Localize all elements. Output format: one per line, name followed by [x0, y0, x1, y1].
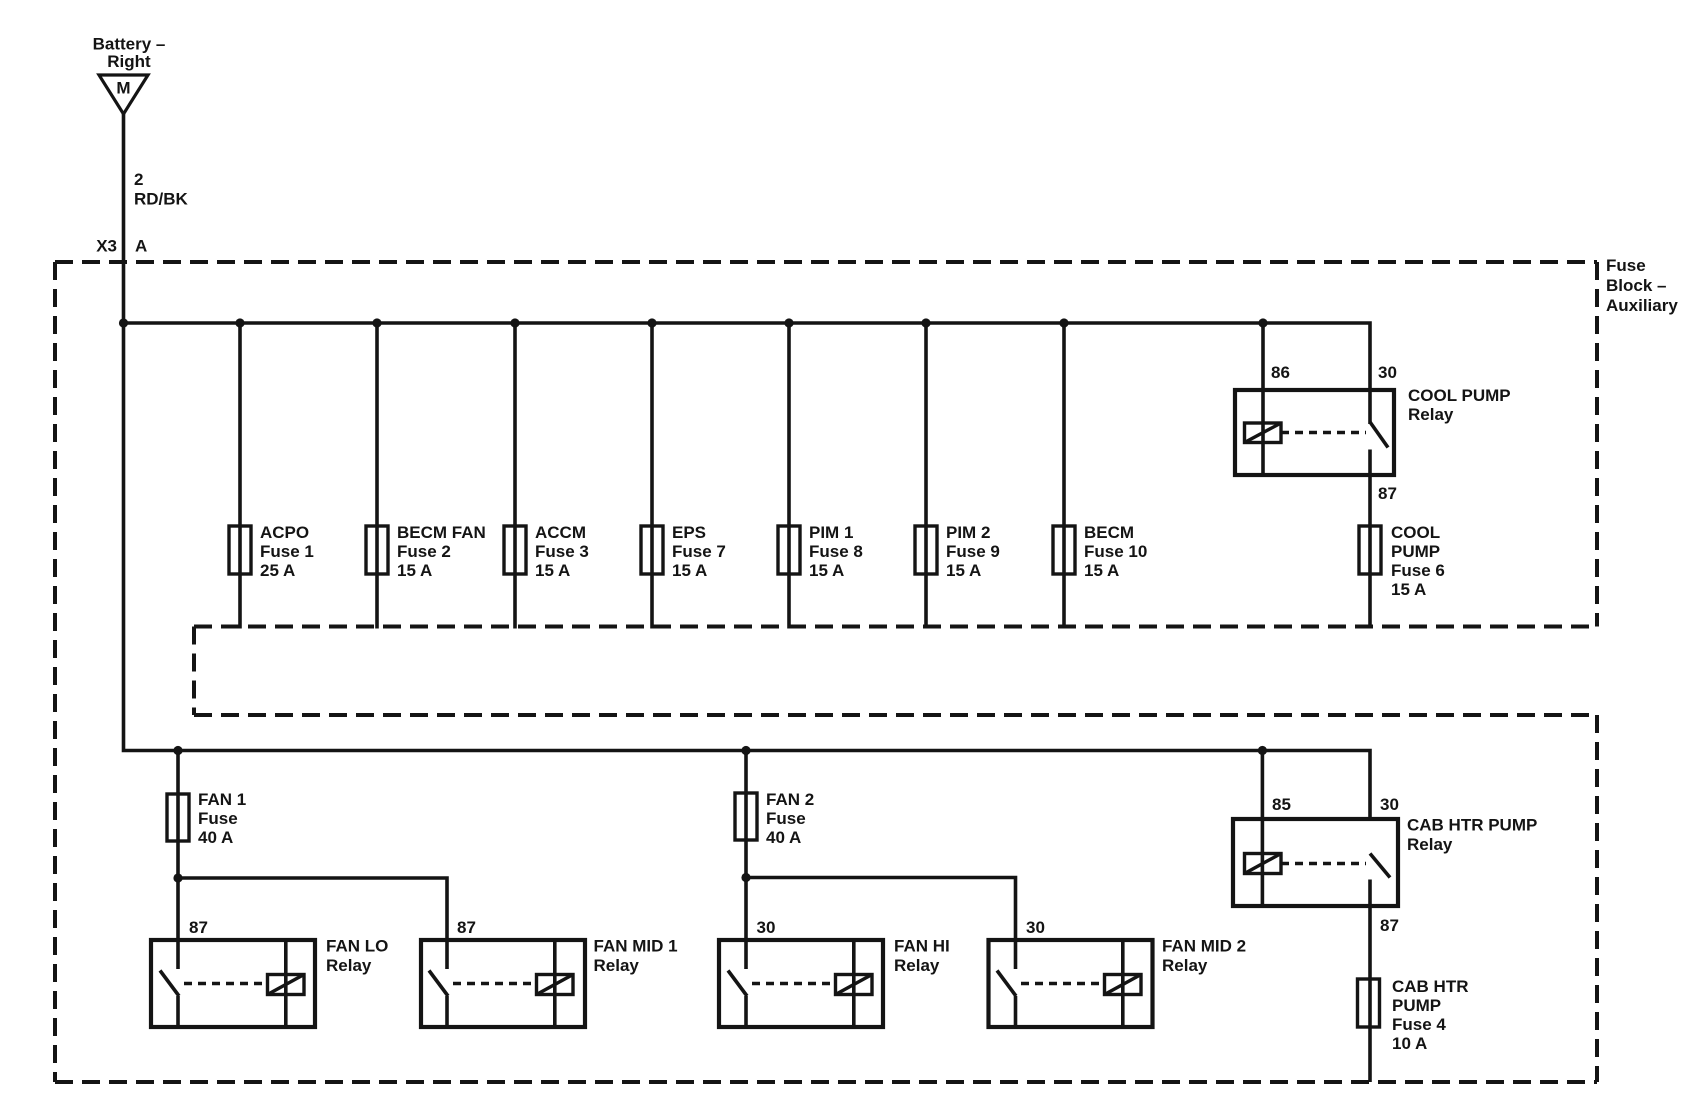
svg-text:Fuse 10: Fuse 10 — [1084, 542, 1147, 561]
svg-text:PUMP: PUMP — [1391, 542, 1440, 561]
svg-text:15 A: 15 A — [1391, 580, 1426, 599]
svg-text:87: 87 — [1380, 916, 1399, 935]
svg-text:15 A: 15 A — [672, 561, 707, 580]
svg-text:87: 87 — [457, 918, 476, 937]
svg-text:86: 86 — [1271, 363, 1290, 382]
svg-text:Relay: Relay — [1407, 835, 1453, 854]
svg-text:Block –: Block – — [1606, 276, 1666, 295]
svg-text:Fuse 1: Fuse 1 — [260, 542, 314, 561]
svg-text:30: 30 — [1380, 795, 1399, 814]
svg-text:Fuse: Fuse — [766, 809, 806, 828]
svg-text:RD/BK: RD/BK — [134, 190, 189, 209]
svg-text:PIM 2: PIM 2 — [946, 523, 990, 542]
svg-text:Auxiliary: Auxiliary — [1606, 296, 1678, 315]
svg-text:Relay: Relay — [894, 956, 940, 975]
svg-text:ACPO: ACPO — [260, 523, 309, 542]
svg-text:Fuse 6: Fuse 6 — [1391, 561, 1445, 580]
svg-text:25 A: 25 A — [260, 561, 295, 580]
svg-text:FAN HI: FAN HI — [894, 937, 950, 956]
svg-text:30: 30 — [757, 918, 776, 937]
svg-text:ACCM: ACCM — [535, 523, 586, 542]
svg-text:30: 30 — [1026, 918, 1045, 937]
svg-text:A: A — [135, 237, 147, 256]
svg-text:15 A: 15 A — [809, 561, 844, 580]
svg-text:Fuse 3: Fuse 3 — [535, 542, 589, 561]
svg-text:BECM FAN: BECM FAN — [397, 523, 486, 542]
svg-text:CAB HTR: CAB HTR — [1392, 977, 1469, 996]
svg-text:Fuse: Fuse — [198, 809, 238, 828]
svg-text:87: 87 — [189, 918, 208, 937]
svg-text:30: 30 — [1378, 363, 1397, 382]
svg-text:FAN 1: FAN 1 — [198, 790, 246, 809]
svg-text:CAB HTR PUMP: CAB HTR PUMP — [1407, 816, 1537, 835]
svg-text:87: 87 — [1378, 484, 1397, 503]
svg-text:FAN MID 1: FAN MID 1 — [594, 937, 678, 956]
svg-text:10 A: 10 A — [1392, 1034, 1427, 1053]
svg-text:Fuse: Fuse — [1606, 256, 1646, 275]
svg-text:FAN MID 2: FAN MID 2 — [1162, 937, 1246, 956]
svg-text:Fuse 9: Fuse 9 — [946, 542, 1000, 561]
svg-text:Relay: Relay — [594, 956, 640, 975]
svg-text:Fuse 8: Fuse 8 — [809, 542, 863, 561]
svg-text:BECM: BECM — [1084, 523, 1134, 542]
svg-text:Relay: Relay — [1408, 405, 1454, 424]
svg-text:Relay: Relay — [326, 956, 372, 975]
svg-text:COOL PUMP: COOL PUMP — [1408, 386, 1511, 405]
svg-text:EPS: EPS — [672, 523, 706, 542]
svg-text:COOL: COOL — [1391, 523, 1440, 542]
svg-text:X3: X3 — [96, 237, 117, 256]
svg-text:Right: Right — [107, 52, 151, 71]
svg-text:Fuse 7: Fuse 7 — [672, 542, 726, 561]
svg-text:Fuse 2: Fuse 2 — [397, 542, 451, 561]
svg-text:40 A: 40 A — [766, 828, 801, 847]
svg-text:15 A: 15 A — [397, 561, 432, 580]
svg-text:Battery –: Battery – — [93, 35, 166, 54]
svg-text:FAN LO: FAN LO — [326, 937, 388, 956]
svg-text:85: 85 — [1272, 795, 1291, 814]
svg-text:PUMP: PUMP — [1392, 996, 1441, 1015]
svg-text:PIM 1: PIM 1 — [809, 523, 853, 542]
svg-text:15 A: 15 A — [535, 561, 570, 580]
svg-text:Relay: Relay — [1162, 956, 1208, 975]
svg-text:FAN 2: FAN 2 — [766, 790, 814, 809]
svg-text:40 A: 40 A — [198, 828, 233, 847]
svg-text:15 A: 15 A — [946, 561, 981, 580]
svg-text:15 A: 15 A — [1084, 561, 1119, 580]
svg-text:2: 2 — [134, 170, 143, 189]
svg-text:M: M — [116, 79, 130, 98]
svg-text:Fuse 4: Fuse 4 — [1392, 1015, 1446, 1034]
